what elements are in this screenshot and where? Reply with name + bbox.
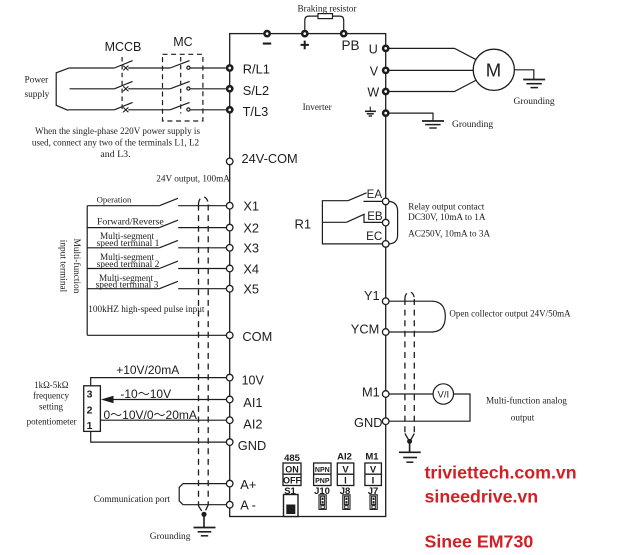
jumper J8 <box>343 495 350 510</box>
svg-text:setting: setting <box>39 401 63 411</box>
contactor MC dashed box <box>163 54 203 121</box>
svg-text:0〜10V/0〜20mA: 0〜10V/0〜20mA <box>104 408 197 422</box>
svg-text:AI2: AI2 <box>337 452 352 463</box>
terminal 24V-COM <box>226 158 233 165</box>
wire COM <box>87 334 226 336</box>
wire M1 to V/I <box>389 393 433 395</box>
svg-text:speed terminal 3: speed terminal 3 <box>96 280 159 290</box>
svg-text:Open collector output 24V/50mA: Open collector output 24V/50mA <box>449 309 571 319</box>
svg-text:YCM: YCM <box>351 321 379 336</box>
svg-text:24V output, 100mA: 24V output, 100mA <box>156 174 230 184</box>
svg-text:J8: J8 <box>340 486 351 497</box>
svg-text:2: 2 <box>87 405 93 417</box>
meter V/I <box>433 384 453 404</box>
svg-text:X2: X2 <box>243 220 259 235</box>
svg-text:Forward/Reverse: Forward/Reverse <box>97 216 164 227</box>
svg-text:When the single-phase 220V pow: When the single-phase 220V power supply … <box>35 126 200 136</box>
inverter box U1 <box>230 34 386 517</box>
terminal R/L1 <box>226 64 234 72</box>
terminal YCM <box>382 329 389 336</box>
svg-text:1kΩ-5kΩ: 1kΩ-5kΩ <box>34 380 69 390</box>
svg-text:PNP: PNP <box>315 478 330 485</box>
relay blade EA <box>348 193 367 201</box>
wire A- <box>183 504 226 506</box>
svg-text:COM: COM <box>242 329 272 344</box>
svg-text:Multi-functioninput terminal: Multi-functioninput terminal <box>58 239 83 294</box>
communication bracket <box>179 484 183 505</box>
svg-text:R/L1: R/L1 <box>243 62 270 77</box>
motor ground wire <box>514 70 533 79</box>
svg-text:MC: MC <box>173 35 192 49</box>
open collector bracket <box>433 301 446 332</box>
dip 485 box <box>283 463 301 486</box>
wire GND pot <box>91 431 227 442</box>
terminal X3 <box>226 245 233 252</box>
svg-text:M1: M1 <box>362 385 380 400</box>
wire U to motor <box>390 48 478 60</box>
shield ground wire <box>203 514 205 527</box>
svg-text:Grounding: Grounding <box>452 120 493 130</box>
svg-text:Y1: Y1 <box>364 288 380 303</box>
jumper J10 <box>319 495 326 510</box>
svg-text:X5: X5 <box>243 282 259 297</box>
contactor MC pole 2 <box>170 81 226 90</box>
breaker MCCB pole 3 <box>114 102 170 112</box>
svg-text:Sinee EM730: Sinee EM730 <box>425 532 534 552</box>
wiper arrow AI1 <box>101 396 114 404</box>
svg-text:V: V <box>370 65 379 79</box>
MC linkage dashed <box>180 57 182 114</box>
svg-text:J10: J10 <box>314 486 330 497</box>
relay fixed contact EA <box>364 200 383 202</box>
contactor MC pole 1 <box>170 61 226 70</box>
terminal AI1 <box>226 396 233 403</box>
svg-text:supply: supply <box>25 90 50 100</box>
relay bracket <box>389 201 397 244</box>
svg-text:AC250V, 10mA to 3A: AC250V, 10mA to 3A <box>408 229 490 239</box>
terminal X2 <box>226 224 233 231</box>
svg-text:T/L3: T/L3 <box>243 104 269 119</box>
switch X1 Operation <box>87 198 226 205</box>
svg-text:AI1: AI1 <box>243 395 262 410</box>
svg-text:X3: X3 <box>243 241 259 256</box>
svg-text:EB: EB <box>367 210 383 223</box>
terminal X1 <box>226 202 233 209</box>
terminal 10V <box>226 374 233 381</box>
braking resistor R <box>318 14 333 19</box>
PE ground wire <box>390 113 434 120</box>
svg-text:Multi-function analog: Multi-function analog <box>486 395 567 405</box>
terminal PB <box>340 30 348 38</box>
svg-text:PB: PB <box>341 38 359 53</box>
PE ground <box>422 121 444 128</box>
wire W to motor <box>390 80 478 92</box>
svg-text:V: V <box>342 464 349 475</box>
svg-text:I: I <box>344 476 347 487</box>
svg-text:used, connect any two of the t: used, connect any two of the terminals L… <box>32 137 200 147</box>
svg-text:A -: A - <box>240 498 256 513</box>
motor M <box>473 49 514 90</box>
terminal T/L3 <box>226 106 234 114</box>
relay fixed contact EB <box>364 214 382 223</box>
svg-text:3: 3 <box>87 389 93 401</box>
svg-text:I: I <box>372 476 375 487</box>
svg-text:V/I: V/I <box>437 390 449 401</box>
shield junction dot right <box>407 439 412 444</box>
terminal A+ <box>226 480 233 487</box>
terminal PE <box>382 109 390 117</box>
svg-text:EC: EC <box>366 230 382 243</box>
svg-text:Relay output contact: Relay output contact <box>408 202 484 212</box>
svg-text:W: W <box>367 86 379 100</box>
svg-text:speed terminal 1: speed terminal 1 <box>97 239 160 249</box>
shield arrow right <box>405 434 414 440</box>
svg-text:Grounding: Grounding <box>150 532 191 542</box>
terminal W <box>382 88 390 96</box>
svg-text:100kHZ high-speed pulse input: 100kHZ high-speed pulse input <box>88 304 205 314</box>
svg-text:and L3.: and L3. <box>100 149 130 160</box>
svg-text:+10V/20mA: +10V/20mA <box>116 363 179 377</box>
jumper J7 <box>370 495 377 510</box>
svg-text:GND: GND <box>238 438 266 453</box>
svg-text:V: V <box>370 464 377 475</box>
svg-text:sineedrive.vn: sineedrive.vn <box>425 487 539 507</box>
svg-text:AI2: AI2 <box>243 417 262 432</box>
potentiometer RP <box>84 386 101 432</box>
svg-text:X4: X4 <box>243 261 259 276</box>
breaker MCCB pole 2 <box>114 81 170 91</box>
relay blade EB <box>346 214 364 222</box>
switch X2 Forward/Reverse <box>87 220 226 227</box>
wire V/I loop to GND <box>389 394 470 421</box>
power supply bracket <box>56 68 69 111</box>
contactor MC pole 3 <box>170 102 226 111</box>
relay R1 middle wire <box>322 221 346 223</box>
svg-text:A+: A+ <box>240 477 256 492</box>
svg-text:1: 1 <box>87 420 93 432</box>
terminal X4 <box>226 265 233 272</box>
terminal EC <box>382 241 389 248</box>
svg-text:M: M <box>486 59 501 80</box>
svg-text:R1: R1 <box>295 217 312 232</box>
wire AI1 <box>112 399 226 401</box>
switch X4 Multi-segment speed terminal 2 <box>87 261 226 268</box>
svg-text:NPN: NPN <box>315 467 330 474</box>
terminal EA <box>382 198 389 205</box>
terminal A- <box>226 501 233 508</box>
svg-text:ON: ON <box>285 464 299 474</box>
svg-text:potentiometer: potentiometer <box>27 416 77 426</box>
breaker MCCB pole 1 <box>114 61 170 71</box>
wire Y1 <box>389 300 433 302</box>
wire 10V <box>91 378 227 386</box>
svg-text:Power: Power <box>25 76 50 86</box>
motor ground <box>523 80 545 88</box>
terminal V <box>382 67 390 75</box>
wire V to motor <box>390 69 474 71</box>
shield cable dashed left <box>199 197 209 513</box>
terminal plus <box>301 30 309 38</box>
terminal AI2 <box>226 417 233 424</box>
terminal GND right <box>382 418 389 425</box>
PE symbol inside box <box>365 107 376 116</box>
svg-text:OFF: OFF <box>283 476 301 486</box>
terminal COM <box>226 332 233 339</box>
dip AI2 box <box>337 463 354 486</box>
svg-text:24V-COM: 24V-COM <box>242 151 298 166</box>
svg-text:X1: X1 <box>243 198 259 213</box>
terminal GND left <box>226 439 233 446</box>
svg-text:U: U <box>369 42 378 56</box>
switch X5 Multi-segment speed terminal 3 <box>87 281 226 288</box>
switch X3 Multi-segment speed terminal 1 <box>87 240 226 247</box>
svg-text:frequency: frequency <box>33 391 69 401</box>
svg-text:Braking resistor: Braking resistor <box>298 3 357 13</box>
shield ground right <box>399 452 421 462</box>
wire L3 <box>68 109 114 111</box>
svg-text:EA: EA <box>367 188 383 201</box>
input bus vertical <box>86 206 88 336</box>
svg-text:speed terminal 2: speed terminal 2 <box>97 260 160 270</box>
terminal EB <box>382 219 389 226</box>
svg-text:Communication port: Communication port <box>94 494 171 504</box>
terminal Y1 <box>382 298 389 305</box>
terminal X5 <box>226 285 233 292</box>
shield ground <box>194 528 216 536</box>
wire AI2 <box>100 419 226 421</box>
relay R1 bus <box>322 201 382 244</box>
svg-text:Operation: Operation <box>97 195 132 205</box>
svg-text:output: output <box>511 413 535 423</box>
svg-text:S/L2: S/L2 <box>243 83 269 98</box>
dip NPN/PNP box <box>314 463 331 486</box>
switch S1 <box>284 495 299 517</box>
svg-text:triviettech.com.vn: triviettech.com.vn <box>425 463 577 483</box>
braking resistor leads <box>305 16 344 30</box>
svg-text:GND: GND <box>354 415 382 430</box>
terminal S/L2 <box>226 85 234 93</box>
wire YCM <box>389 331 433 333</box>
wire A+ <box>183 483 226 485</box>
svg-text:10V: 10V <box>242 373 265 387</box>
svg-text:DC30V, 10mA to 1A: DC30V, 10mA to 1A <box>408 212 486 222</box>
terminal U <box>382 45 390 53</box>
terminal minus <box>263 30 271 38</box>
wire L1 <box>70 67 115 69</box>
svg-text:-10〜10V: -10〜10V <box>120 387 171 401</box>
svg-text:M1: M1 <box>365 452 379 463</box>
terminal M1 <box>382 391 389 398</box>
svg-text:Grounding: Grounding <box>514 97 555 107</box>
dip M1 box <box>365 463 382 486</box>
shield cable dashed right <box>405 292 414 434</box>
shield junction dot <box>201 512 206 517</box>
shield ground wire right <box>409 441 411 451</box>
svg-text:Inverter: Inverter <box>303 102 332 112</box>
svg-text:MCCB: MCCB <box>105 40 142 54</box>
MCCB linkage dashed <box>121 57 123 113</box>
wire L2 <box>70 88 115 90</box>
